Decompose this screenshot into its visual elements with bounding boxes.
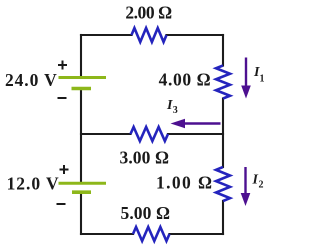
- svg-text:1: 1: [260, 74, 265, 85]
- svg-text:5.00 Ω: 5.00 Ω: [120, 203, 170, 223]
- svg-text:24.0 V: 24.0 V: [5, 70, 58, 90]
- svg-text:1.00 Ω: 1.00 Ω: [156, 172, 213, 192]
- svg-text:12.0 V: 12.0 V: [7, 173, 60, 193]
- svg-text:I: I: [252, 173, 259, 188]
- svg-text:2.00 Ω: 2.00 Ω: [125, 2, 172, 22]
- svg-text:3.00 Ω: 3.00 Ω: [119, 147, 169, 167]
- svg-text:4.00 Ω: 4.00 Ω: [159, 69, 212, 89]
- svg-text:2: 2: [259, 180, 264, 191]
- svg-text:3: 3: [173, 105, 178, 116]
